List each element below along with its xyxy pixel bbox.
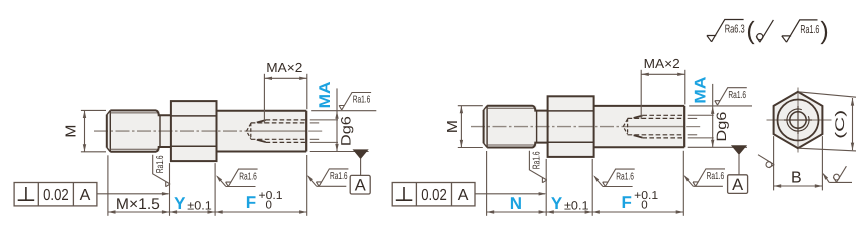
right-view hex collar facet line top	[548, 110, 594, 112]
right-view dimension MAx2 extension left	[640, 70, 642, 119]
right-view stub major bottom	[688, 137, 714, 139]
svg-text:Ra1.6: Ra1.6	[155, 155, 166, 173]
left-view tap thread runout bottom	[257, 140, 266, 142]
right-view dimension M extension top	[458, 105, 483, 107]
svg-text:Ra1.6: Ra1.6	[800, 24, 819, 36]
hex end view fill	[774, 92, 823, 148]
svg-text:MA×2: MA×2	[644, 56, 680, 71]
svg-text:MA: MA	[317, 81, 334, 108]
right-view dimension M line	[460, 106, 462, 148]
hex end view horizontal centerline	[767, 119, 832, 121]
left-view tap minor dia hidden bottom	[251, 138, 306, 140]
dimension C text	[833, 110, 847, 139]
left-view dimension M extension bottom	[81, 151, 106, 153]
right-view surface symbol Ra1.6 rotated on collar-left extension	[529, 151, 546, 183]
svg-text:Ra1.6: Ra1.6	[616, 171, 634, 182]
svg-text:0: 0	[266, 199, 272, 211]
right-view label MA blue	[693, 77, 710, 104]
right-view tap minor dia hidden bottom	[628, 134, 685, 136]
svg-text:Y: Y	[551, 194, 563, 213]
left-view dimension M extension top	[81, 109, 106, 111]
right-view thread chamfer line	[486, 106, 488, 148]
right-view dimension M extension bottom	[458, 147, 483, 149]
svg-text:Ra1.6: Ra1.6	[532, 151, 543, 169]
svg-text:(: (	[746, 17, 755, 45]
left-view hex collar facet line bottom	[171, 145, 217, 147]
note circle-check symbol	[756, 20, 773, 42]
right-view dimension first segment line	[487, 211, 547, 213]
right-view tap minor dia hidden top	[628, 117, 685, 119]
right-view centerline solid through tapped hole	[622, 126, 684, 128]
svg-text:Ra6.3: Ra6.3	[725, 24, 745, 36]
right-view dimension MAx2 extension right	[684, 70, 686, 105]
svg-text:Ra1.6: Ra1.6	[728, 90, 746, 101]
svg-text:Ra1.6: Ra1.6	[330, 171, 348, 182]
left-view surface symbol Ra1.6 top	[339, 93, 371, 110]
left-view dimension MAx2 extension left	[263, 74, 265, 124]
left-view centerline stub	[308, 130, 322, 132]
right-view dimension MAx2 line	[641, 73, 685, 75]
svg-text:A: A	[355, 177, 366, 195]
right-view cylinder bottom edge	[594, 146, 685, 148]
right-view thread chamfer bottom	[484, 143, 488, 147]
svg-text:(C): (C)	[833, 110, 847, 139]
left-view datum A triangle	[354, 150, 368, 158]
right-view stub minor top	[688, 117, 698, 119]
svg-text:F: F	[622, 193, 632, 212]
dimension C extension bottom	[798, 148, 856, 151]
right-view stub major top	[688, 114, 714, 116]
left-view centerline solid through tapped hole	[246, 130, 307, 132]
svg-text:Ra1.6: Ra1.6	[239, 171, 257, 182]
svg-text:MA: MA	[693, 77, 710, 104]
left-view dimension Y line	[170, 211, 216, 213]
left-view surface symbol Ra1.6 leader on end-face extension	[317, 185, 347, 187]
right-view extension line collar right	[591, 159, 593, 216]
svg-text:Dg6: Dg6	[338, 116, 353, 146]
right-view thread end line	[536, 111, 538, 143]
left-view dimension M line	[84, 110, 86, 151]
left-view thread chamfer line	[109, 110, 111, 151]
svg-text:A: A	[732, 176, 743, 194]
left-view hex collar outline	[171, 101, 217, 161]
tap hole major arc	[787, 109, 809, 131]
right-view thread left end edge	[483, 110, 485, 143]
left-view surface symbol Ra1.6 rotated on collar-left extension	[153, 155, 170, 187]
left-view tolerance frame box	[14, 183, 97, 206]
left-view dimension Dg6 text	[338, 116, 353, 146]
svg-text:±0.1: ±0.1	[187, 199, 212, 213]
svg-text:): )	[820, 17, 828, 45]
right-view dimension Y line	[546, 211, 592, 213]
svg-text:0.02: 0.02	[43, 187, 69, 204]
right-view centerline stub	[686, 126, 700, 128]
left-view extension line Dg6 top	[311, 110, 376, 112]
svg-text:Dg6: Dg6	[714, 112, 729, 142]
hex end view center cross	[784, 119, 812, 121]
left-view dimension Dg6 line with MA leader extension	[336, 88, 338, 151]
svg-text:±0.1: ±0.1	[564, 199, 589, 213]
right-view tolerance frame leader arrow	[475, 193, 545, 195]
left-view tap major dia hidden bottom	[266, 141, 307, 143]
svg-text:Ra1.6: Ra1.6	[707, 171, 725, 182]
svg-text:F: F	[246, 193, 256, 212]
right-view dimension Dg6 line with MA leader extension	[712, 84, 714, 147]
right-view hex collar facet line bottom	[548, 141, 594, 143]
svg-text:N: N	[510, 194, 522, 213]
svg-text:Ra1.6: Ra1.6	[353, 95, 371, 106]
right-view hex collar outline	[548, 96, 594, 157]
right-view dimension Dg6 text	[714, 112, 729, 142]
surface symbol circle-check right of B with leader	[829, 181, 852, 183]
left-view extension line collar left	[169, 163, 171, 216]
left-view cylinder top edge	[217, 110, 307, 112]
svg-text:MA×2: MA×2	[266, 60, 302, 75]
right-view stub minor bottom	[688, 134, 698, 136]
left-view label MA blue	[317, 81, 334, 108]
note Ra1.6 surface symbol	[782, 20, 818, 42]
left-view surface symbol Ra1.6 leader on collar-right extension	[226, 186, 256, 188]
left-view stub minor bottom	[310, 138, 320, 140]
right-view extension line end face	[682, 151, 684, 216]
left-view thread root line top	[110, 112, 158, 114]
right-view surface symbol Ra1.6 leader on end-face extension	[693, 185, 723, 187]
left-view tap drill bottom line	[250, 123, 252, 139]
right-view extension line Dg6 bottom / datum surface	[688, 146, 747, 148]
left-view tap thread runout top	[257, 120, 266, 122]
left-view shaft body fill	[107, 101, 306, 161]
right-view thread OD top with undercut fillet	[487, 106, 547, 111]
right-view tap thread runout top	[634, 116, 643, 118]
left-view datum A leader	[360, 158, 362, 175]
left-view stub major top	[310, 119, 338, 121]
right-view thread root line bottom	[487, 144, 534, 146]
surface symbol circle-check left of B	[758, 155, 774, 168]
left-view thread end line	[159, 115, 161, 147]
left-view thread OD bottom with undercut fillet	[110, 147, 171, 152]
hex chamfer circle	[778, 100, 819, 141]
left-view thread chamfer bottom	[107, 147, 111, 151]
right-view tap drill point	[623, 119, 627, 134]
left-view dimension MAx2 extension right	[306, 74, 308, 109]
svg-text:0: 0	[641, 199, 647, 211]
left-view tap minor dia hidden top	[251, 122, 306, 124]
left-view thread OD top with undercut fillet	[110, 110, 171, 115]
left-view tap drill point	[247, 124, 251, 139]
left-view dimension M text	[64, 125, 80, 138]
right-view shaft body fill	[484, 96, 685, 157]
right-view tap drill bottom line	[627, 118, 629, 134]
right-view datum A leader	[738, 154, 740, 175]
left-view dimension first segment line	[108, 211, 170, 213]
right-view extension line thread start	[486, 151, 488, 216]
right-view centerline	[471, 126, 622, 128]
tap hole minor circle	[790, 112, 806, 128]
left-view dimension F line	[215, 211, 307, 213]
right-view tolerance frame box	[392, 183, 475, 206]
left-view thread root line bottom	[110, 148, 158, 150]
right-view thread chamfer top	[484, 106, 488, 110]
svg-text:M: M	[445, 120, 461, 133]
note Ra6.3 surface symbol	[707, 20, 744, 42]
right-view tap major dia hidden bottom	[642, 137, 684, 139]
svg-text:0.02: 0.02	[421, 187, 447, 204]
left-view tolerance frame leader arrow	[97, 193, 169, 195]
left-view stub minor top	[310, 122, 320, 124]
dimension B line	[774, 185, 823, 187]
dimension C line	[852, 98, 854, 150]
svg-text:B: B	[791, 169, 802, 186]
left-view cylinder bottom edge	[217, 151, 307, 153]
right-view cylinder end face	[683, 106, 685, 147]
right-view thread OD bottom with undercut fillet	[487, 143, 547, 148]
svg-text:M: M	[64, 125, 80, 138]
left-view extension line Dg6 bottom / datum surface	[310, 151, 369, 153]
right-view datum A box	[728, 175, 748, 194]
left-view extension line end face	[306, 155, 308, 216]
dimension B extension left	[773, 136, 775, 190]
svg-text:A: A	[458, 187, 469, 204]
right-view thread root line top	[487, 107, 534, 109]
right-view surface symbol Ra1.6 leader on collar-right extension	[603, 186, 633, 188]
right-view dimension M text	[445, 120, 461, 133]
svg-text:A: A	[80, 187, 91, 204]
right-view perpendicularity symbol	[403, 187, 405, 200]
left-view thread chamfer top	[107, 110, 111, 114]
dimension B extension right	[821, 136, 823, 190]
left-view extension line collar right	[214, 163, 216, 216]
svg-text:M×1.5: M×1.5	[116, 196, 160, 213]
hex end view outline	[774, 92, 823, 148]
left-view perpendicularity symbol	[25, 187, 27, 200]
left-view stub major bottom	[310, 141, 338, 143]
left-view thread left end edge	[106, 115, 108, 148]
right-view dimension F line	[592, 211, 683, 213]
right-view tap major dia hidden top	[642, 114, 684, 116]
left-view datum A box	[350, 175, 370, 194]
left-view hex collar facet line top	[171, 115, 217, 117]
svg-text:Y: Y	[174, 194, 186, 213]
left-view cylinder end face	[305, 111, 307, 152]
right-view surface symbol Ra1.6 top	[715, 88, 747, 105]
right-view tap thread runout bottom	[634, 135, 643, 137]
right-view extension line Dg6 top	[689, 105, 752, 107]
hex end view vertical centerline	[797, 88, 799, 153]
left-view tap major dia hidden top	[266, 119, 307, 121]
right-view datum A triangle	[732, 146, 746, 154]
right-view cylinder top edge	[594, 105, 685, 107]
left-view dimension MAx2 line	[264, 77, 306, 79]
right-view extension line collar left	[545, 159, 547, 216]
left-view extension line thread start	[107, 155, 109, 216]
left-view centerline	[94, 130, 246, 132]
dimension C extension top	[798, 92, 856, 97]
